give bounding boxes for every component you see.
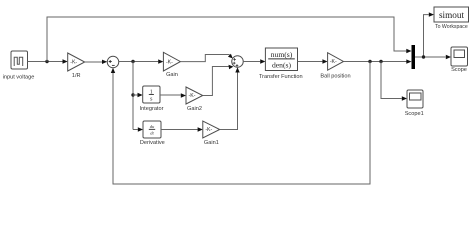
arrowhead into mux input 2 xyxy=(406,59,411,63)
wire Gain to sum2 upper-left xyxy=(180,55,231,62)
gain Gain xyxy=(163,52,180,71)
svg-text:Derivative: Derivative xyxy=(140,140,165,146)
arrowhead into Scope1 xyxy=(402,96,407,100)
svg-text:Integrator: Integrator xyxy=(140,106,164,112)
wire top bypass (input voltage to mux input 1) xyxy=(47,17,407,62)
wire to Derivative xyxy=(133,129,138,131)
wire Derivative to Gain1 xyxy=(161,129,198,131)
junction at x=47 main row xyxy=(45,60,48,63)
junction at 423.5,57 xyxy=(422,55,425,58)
svg-text:-K-: -K- xyxy=(189,93,196,99)
wire Gain2 to sum2 lower-left xyxy=(203,67,230,96)
svg-text:Ball position: Ball position xyxy=(320,74,350,80)
arrowhead into 1/R xyxy=(63,59,68,63)
wire Gain1 to sum2 bottom xyxy=(220,73,238,130)
wire Ball position to mux input 2 xyxy=(344,61,407,63)
svg-text:-K-: -K- xyxy=(205,127,212,133)
svg-text:1/R: 1/R xyxy=(72,73,81,79)
wire feedback loop to sum1 bottom xyxy=(113,62,370,185)
junction at x=133 xyxy=(131,60,134,63)
svg-text:Scope1: Scope1 xyxy=(405,111,424,117)
sum2 circle xyxy=(232,56,244,68)
arrowhead into Ball position xyxy=(322,59,327,63)
arrowhead into Scope xyxy=(446,55,451,59)
svg-text:-K-: -K- xyxy=(166,59,173,65)
gain Ball position xyxy=(328,53,344,70)
wire mux output to Scope xyxy=(415,56,446,58)
arrowhead into sum1 bottom xyxy=(111,68,115,73)
arrowhead into sum2 upper-left xyxy=(228,54,233,59)
svg-text:du: du xyxy=(150,124,155,129)
arrowhead into mux input 1 xyxy=(406,49,411,53)
junction at 133,95 xyxy=(131,93,134,96)
svg-text:input voltage: input voltage xyxy=(3,75,35,81)
sum2 plus signs xyxy=(233,58,238,67)
mux block xyxy=(412,45,416,69)
arrowhead into simout xyxy=(429,12,434,16)
wire 1/R to sum1 xyxy=(85,61,102,63)
block Integrator xyxy=(143,86,160,103)
svg-text:Gain: Gain xyxy=(166,72,178,78)
arrowhead into sum2 lower-left xyxy=(229,65,234,69)
wire pulse output to 1/R xyxy=(28,61,63,63)
wire sum1 output to Gain xyxy=(119,61,158,63)
block Scope xyxy=(451,47,468,66)
wire Transfer Function to Ball position xyxy=(298,61,323,63)
svg-text:Scope: Scope xyxy=(451,67,467,73)
svg-text:den(s): den(s) xyxy=(272,61,291,70)
svg-text:Gain1: Gain1 xyxy=(204,140,219,146)
wire to Scope1 xyxy=(381,62,402,99)
arrowhead into Integrator xyxy=(138,93,143,97)
wire to Integrator xyxy=(133,94,138,96)
block Scope1 xyxy=(407,90,423,108)
svg-text:num(s): num(s) xyxy=(271,50,293,59)
sum1 minus sign (bottom input) xyxy=(112,64,115,66)
junction at 381 (scope1 tap) xyxy=(379,60,382,63)
arrowhead into Derivative xyxy=(138,127,143,131)
gain Gain1 xyxy=(203,121,220,138)
sum1 circle xyxy=(107,56,119,68)
svg-text:Gain2: Gain2 xyxy=(187,106,202,112)
arrowhead into sum1 xyxy=(102,60,107,64)
svg-text:-K-: -K- xyxy=(330,59,337,65)
block Pulse Generator (input voltage) xyxy=(11,51,28,69)
wire to simout (To Workspace) xyxy=(424,15,429,57)
svg-text:simout: simout xyxy=(439,10,464,20)
svg-text:-K-: -K- xyxy=(70,60,77,66)
gain 1/R xyxy=(68,53,85,71)
arrowhead into Gain xyxy=(158,59,163,63)
wire sum2 to Transfer Function xyxy=(243,61,260,63)
arrowhead into Gain2 xyxy=(181,93,186,97)
arrowhead into Transfer Function xyxy=(260,59,265,63)
block Derivative xyxy=(143,121,161,138)
block Transfer Function xyxy=(265,48,297,71)
svg-text:To Workspace: To Workspace xyxy=(435,24,468,30)
gain Gain2 xyxy=(186,87,203,104)
svg-text:Transfer Function: Transfer Function xyxy=(259,74,303,80)
wire vertical branch down from 133,61.5 xyxy=(132,62,134,130)
wire Integrator to Gain2 xyxy=(160,94,181,96)
sum1 plus sign (left input) xyxy=(109,60,112,63)
arrowhead into sum2 bottom xyxy=(235,67,239,72)
arrowhead into Gain1 xyxy=(198,127,203,131)
junction at 370 (feedback tap) xyxy=(368,60,371,63)
block simout xyxy=(434,7,469,22)
